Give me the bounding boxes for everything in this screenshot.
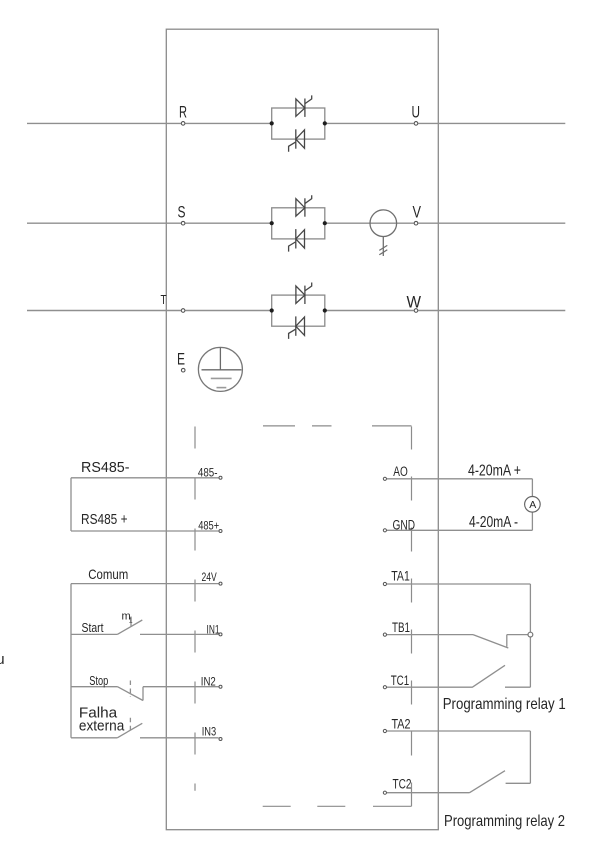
terminal E: [181, 368, 185, 372]
protective earth symbol: [198, 347, 242, 391]
wire R input line: [27, 122, 181, 124]
svg-text:A: A: [529, 499, 536, 511]
svg-text:E: E: [177, 350, 185, 369]
wire T to thyristor: [185, 310, 271, 312]
svg-text:S: S: [178, 203, 186, 222]
wire 485+: [71, 530, 219, 532]
wire U output line: [418, 122, 565, 124]
relay2 NO blade: [470, 771, 506, 793]
slash marks on stem: [379, 245, 387, 254]
terminal IN1: [219, 633, 222, 636]
terminal 485+: [219, 530, 222, 533]
terminal U: [414, 122, 418, 126]
terminal IN3: [219, 738, 222, 741]
svg-text:R: R: [179, 102, 187, 121]
wire thyristor to W: [325, 310, 414, 312]
wire RS485 bracket left: [70, 478, 72, 531]
svg-text:RS485-: RS485-: [81, 460, 130, 476]
svg-text:24V: 24V: [202, 572, 217, 584]
svg-text:IN1: IN1: [207, 624, 220, 636]
wire GND out: [387, 529, 532, 531]
wire AO out: [387, 478, 532, 480]
wire S input line: [27, 222, 181, 224]
svg-text:TC1: TC1: [391, 673, 410, 688]
wire falha left: [71, 737, 117, 739]
wire R to thyristor: [185, 122, 271, 124]
wire TC2 out: [387, 792, 470, 794]
svg-text:externa: externa: [79, 718, 125, 734]
svg-text:1: 1: [129, 618, 133, 625]
svg-text:U: U: [412, 102, 421, 121]
svg-text:GND: GND: [393, 518, 416, 533]
terminal TA1: [383, 582, 386, 585]
terminal R: [181, 122, 185, 126]
stop contact stub: [142, 687, 144, 701]
terminal 24V: [219, 582, 222, 585]
dashed top edge: [263, 425, 412, 427]
terminal V: [414, 221, 418, 225]
stop contact blade: [118, 687, 144, 701]
wire ammeter bottom: [531, 512, 533, 530]
terminal IN2: [219, 685, 222, 688]
relay1 NC link: [507, 634, 528, 636]
svg-text:W: W: [407, 293, 422, 312]
wire falha to IN3: [140, 737, 219, 739]
svg-text:TB1: TB1: [392, 620, 410, 635]
svg-text:u: u: [0, 651, 5, 668]
relay1 NC stub: [506, 635, 508, 647]
wire S to thyristor: [185, 222, 271, 224]
svg-text:4-20mA +: 4-20mA +: [468, 463, 521, 480]
thyristor module phase R: [270, 95, 327, 151]
dashed control-board boundary: [195, 426, 412, 806]
terminal TB1: [383, 633, 386, 636]
svg-text:Comum: Comum: [88, 566, 128, 582]
svg-text:TC2: TC2: [393, 777, 412, 792]
svg-text:Programming relay 1: Programming relay 1: [443, 696, 566, 713]
wire 24V common: [71, 583, 219, 585]
wire thyristor to U: [325, 122, 414, 124]
svg-text:AO: AO: [393, 464, 408, 479]
terminal TA2: [383, 729, 386, 732]
svg-text:IN2: IN2: [201, 676, 216, 688]
stop actuator link: [129, 681, 131, 698]
svg-text:Start: Start: [82, 620, 104, 635]
start contact blade: [117, 620, 142, 634]
wire thyristor to V: [325, 222, 414, 224]
svg-text:T: T: [161, 293, 167, 307]
wire circle stem down: [382, 237, 384, 257]
wire relay2 stub: [506, 782, 531, 784]
wire TC1 out: [387, 686, 472, 688]
wire T input line: [27, 310, 181, 312]
falha actuator link: [129, 718, 131, 731]
drive enclosure outline: [166, 29, 438, 830]
wire W output line: [418, 310, 565, 312]
wire TA1 out: [387, 583, 530, 585]
relay1 NC blade: [473, 635, 508, 648]
wire ammeter top: [531, 479, 533, 497]
thyristor module phase T: [270, 283, 327, 339]
terminal T: [181, 309, 185, 313]
terminal TC2: [383, 791, 386, 794]
start actuator link: [130, 617, 132, 627]
wire TB1 out: [387, 634, 473, 636]
terminal S: [181, 221, 185, 225]
svg-text:Programming relay 2: Programming relay 2: [444, 813, 565, 830]
wire stop to IN2: [143, 686, 219, 688]
dashed left edge: [194, 427, 196, 791]
svg-text:485+: 485+: [198, 521, 219, 533]
wire stop left: [71, 686, 118, 688]
bypass contactor circle on V phase: [370, 210, 397, 237]
svg-text:Stop: Stop: [89, 673, 108, 688]
terminal TC1: [383, 686, 386, 689]
wire control chain left: [70, 584, 72, 738]
svg-text:TA2: TA2: [392, 717, 411, 732]
wire TA2 out: [387, 730, 530, 732]
wire relay2 rail: [529, 731, 531, 783]
svg-text:V: V: [413, 203, 422, 222]
terminal GND: [383, 529, 386, 532]
terminal 485-: [219, 476, 222, 479]
thyristor module phase S: [270, 195, 327, 251]
dashed right edge: [411, 427, 413, 807]
svg-text:4-20mA -: 4-20mA -: [469, 514, 518, 531]
wire start left: [71, 633, 117, 635]
dashed bottom edge: [263, 805, 412, 807]
terminal W: [414, 309, 418, 313]
terminal AO: [383, 477, 386, 480]
wire relay1 bottom stub: [505, 686, 530, 688]
svg-text:RS485 +: RS485 +: [81, 512, 128, 528]
wire V output line: [418, 222, 565, 224]
wire start to IN1: [140, 633, 219, 635]
svg-text:485-: 485-: [198, 467, 218, 479]
wire 485-: [71, 477, 219, 479]
ammeter A1: [525, 497, 541, 513]
svg-text:IN3: IN3: [202, 726, 217, 738]
svg-text:TA1: TA1: [391, 568, 410, 583]
falha contact blade: [117, 723, 142, 738]
relay1 pivot node: [528, 632, 533, 637]
relay1 NO blade: [472, 665, 505, 687]
wire relay1 common rail: [529, 584, 531, 687]
